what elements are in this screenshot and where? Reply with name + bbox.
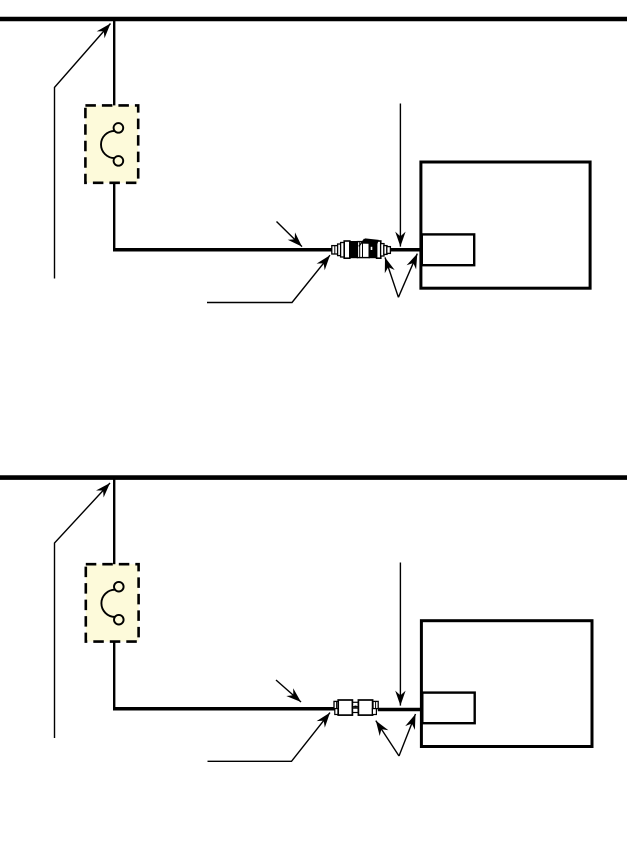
callout arrow to main/riser junction (top diagram) — [55, 24, 111, 279]
service riser pipe lower segment (top diagram) — [113, 183, 115, 250]
service riser pipe upper segment (top diagram) — [113, 21, 115, 106]
callout arrow down to meter connection pipe (bottom diagram) — [395, 563, 405, 706]
meter box (bottom diagram) — [421, 621, 592, 747]
water main line (top diagram) — [0, 17, 627, 22]
meter box (top diagram) — [421, 162, 590, 288]
valve box (dashed, bottom diagram) — [86, 564, 139, 641]
callout arrow to service lateral (top diagram) — [277, 222, 303, 247]
double callout arrows to coupling outlet and meter inlet (bottom diagram) — [376, 714, 416, 756]
callout arrow down to meter connection pipe (top diagram) — [395, 104, 405, 247]
curb stop valve loop symbol (bottom diagram) — [101, 582, 123, 625]
pipe from coupling to meter inlet (bottom diagram) — [378, 708, 422, 712]
service lateral pipe to coupling (bottom diagram) — [113, 707, 335, 711]
quick-disconnect hose coupling, connected (top diagram) — [332, 238, 391, 258]
water main line (bottom diagram) — [0, 475, 627, 480]
pipe from coupling to meter inlet (top diagram) — [390, 248, 421, 252]
curb stop valve loop symbol (top diagram) — [101, 123, 123, 166]
service riser pipe upper segment (bottom diagram) — [113, 479, 115, 565]
meter inlet port (top diagram) — [422, 234, 474, 265]
callout arrow to service lateral (bottom diagram) — [276, 680, 301, 702]
callout arrow to main/riser junction (bottom diagram) — [55, 483, 111, 738]
double callout arrows to coupling outlet and meter inlet (top diagram) — [385, 254, 418, 298]
callout arrow to coupling inlet (top diagram) — [207, 255, 330, 302]
callout arrow to coupling inlet (bottom diagram) — [208, 713, 331, 762]
meter inlet port (bottom diagram) — [422, 693, 474, 724]
service riser pipe lower segment (bottom diagram) — [113, 642, 115, 709]
valve box (dashed, top diagram) — [85, 105, 138, 182]
service lateral pipe to coupling (top diagram) — [113, 248, 333, 252]
quick-disconnect coupling halves, mated (bottom diagram) — [334, 700, 378, 715]
